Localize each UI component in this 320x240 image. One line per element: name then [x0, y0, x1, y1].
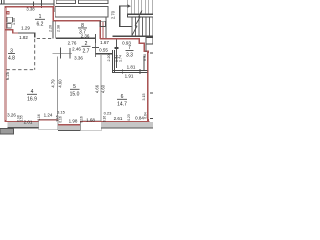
shaft box top right	[146, 37, 153, 44]
svg-text:6.2: 6.2	[37, 22, 44, 28]
red fixture mark	[7, 12, 9, 14]
right edge tick	[150, 117, 153, 120]
fixture sink	[7, 17, 13, 22]
svg-text:3.15: 3.15	[57, 110, 66, 115]
svg-text:3.36: 3.36	[74, 56, 83, 61]
bottom wall red left segment	[5, 121, 39, 122]
gray band left	[8, 122, 39, 127]
svg-text:3.26: 3.26	[7, 113, 16, 118]
svg-text:2.61: 2.61	[114, 116, 123, 121]
svg-text:1.82: 1.82	[19, 35, 28, 40]
dim line vertical mid	[94, 43, 97, 57]
wall bottom of room 8	[56, 38, 95, 39]
stair landing band	[127, 14, 153, 15]
partition wall room5/6	[101, 54, 102, 121]
room 4 underline	[27, 93, 37, 96]
window bay mid	[81, 121, 102, 131]
svg-text:2.20: 2.20	[107, 55, 111, 62]
svg-text:2.20: 2.20	[49, 25, 53, 32]
svg-text:0.16: 0.16	[37, 114, 41, 120]
dim cross mid	[53, 52, 73, 55]
svg-text:16.9: 16.9	[27, 96, 37, 102]
corridor bottom wall	[96, 53, 114, 54]
room 1 underline	[35, 18, 45, 21]
room 7 underline	[126, 49, 134, 52]
shaft right edge	[106, 17, 107, 40]
balcony big rect	[55, 6, 108, 17]
svg-text:1.68: 1.68	[86, 118, 95, 123]
shaft column	[100, 21, 106, 26]
right edge tick	[150, 91, 153, 94]
dim tick	[34, 32, 35, 37]
svg-text:2.7: 2.7	[83, 48, 90, 54]
shaft left line	[145, 37, 148, 52]
svg-text:4.66: 4.66	[95, 84, 100, 93]
fixture toilet	[7, 24, 11, 28]
tick	[2, 0, 5, 4]
svg-text:2.70: 2.70	[110, 10, 115, 19]
svg-text:1.67: 1.67	[100, 40, 109, 45]
svg-text:0.90: 0.90	[143, 54, 147, 61]
svg-text:4.60: 4.60	[58, 79, 63, 88]
svg-text:3.3: 3.3	[126, 52, 133, 58]
room 2 underline	[82, 45, 91, 48]
dim tick cross	[92, 46, 99, 49]
stair break line	[132, 10, 142, 35]
right edge tick	[150, 51, 153, 54]
window bay left	[39, 119, 58, 129]
room7 left wall double	[111, 50, 114, 73]
svg-text:4.79: 4.79	[51, 79, 56, 88]
rotated dims	[5, 10, 115, 93]
wall red step h1	[139, 43, 146, 44]
wall red vertical right of room 1	[52, 6, 54, 21]
wall red notch h2	[12, 32, 18, 33]
bottom wall red right segment	[101, 121, 149, 122]
stair arrow line	[119, 5, 127, 8]
svg-text:1.81: 1.81	[127, 65, 136, 70]
svg-text:15.0: 15.0	[70, 91, 80, 97]
wall red notch h1	[5, 29, 14, 30]
partition wall room4/5	[57, 57, 58, 120]
tick	[32, 2, 35, 7]
balcony bar A	[56, 0, 75, 4]
svg-text:1.55: 1.55	[12, 18, 16, 25]
svg-text:2.36: 2.36	[81, 33, 90, 38]
top dimension line	[0, 4, 54, 5]
svg-text:0.16: 0.16	[80, 116, 84, 122]
dim tick	[121, 69, 124, 74]
svg-text:1.74: 1.74	[119, 55, 123, 62]
svg-text:14.7: 14.7	[117, 101, 127, 107]
stair shaft left wall	[119, 6, 120, 28]
room 8 underline	[78, 27, 87, 30]
wall red step v1	[139, 38, 141, 44]
svg-text:3.15: 3.15	[142, 94, 146, 101]
svg-text:2.01: 2.01	[24, 119, 33, 124]
dim tick	[139, 69, 142, 74]
dim tick blob	[115, 47, 119, 49]
room 6 underline	[117, 98, 127, 101]
svg-text:4.8: 4.8	[8, 56, 15, 62]
room 5 underline	[70, 88, 80, 91]
svg-text:0.16: 0.16	[59, 116, 63, 122]
dim line room3 top	[18, 33, 36, 34]
svg-text:1.91: 1.91	[125, 74, 134, 79]
svg-text:1.55: 1.55	[20, 115, 24, 121]
wall red notch v	[12, 29, 13, 33]
svg-text:2.38: 2.38	[56, 25, 60, 32]
svg-text:0.55: 0.55	[99, 47, 108, 52]
svg-text:0.23: 0.23	[104, 111, 113, 116]
dashed boundary room1 bottom	[37, 37, 53, 39]
tick	[41, 0, 42, 8]
wall red vertical left of stairs	[100, 20, 102, 39]
svg-text:2.76: 2.76	[68, 41, 77, 46]
wall room1/room8 double	[52, 21, 55, 39]
svg-text:1.29: 1.29	[21, 26, 30, 31]
svg-text:0.23: 0.23	[127, 114, 131, 120]
bottom wall red mid segment	[58, 124, 81, 125]
gray band right	[101, 122, 153, 127]
dark wall stub right	[144, 56, 145, 71]
svg-text:6.25: 6.25	[5, 71, 10, 80]
wall red top of room 8	[53, 20, 101, 22]
svg-text:1.98: 1.98	[69, 119, 78, 124]
wall red top of room 7	[100, 38, 140, 40]
balcony bar B	[78, 0, 108, 4]
wall red step v2	[144, 43, 146, 52]
door threshold tick	[115, 56, 119, 59]
wall top red	[5, 6, 55, 7]
svg-text:1.24: 1.24	[44, 113, 53, 118]
svg-text:4.60: 4.60	[101, 84, 106, 93]
dashed boundary room4 top	[7, 69, 35, 71]
wall right red	[147, 51, 149, 123]
svg-text:0.16: 0.16	[103, 116, 107, 122]
tick	[0, 0, 3, 4]
dim line vertical room7	[115, 40, 118, 69]
dim tick	[94, 34, 97, 43]
dashed boundary vertical	[34, 39, 36, 70]
stair treads lower flight	[131, 18, 134, 36]
bottom double wall of room7 corridor	[113, 70, 148, 71]
svg-text:3.38: 3.38	[26, 7, 35, 12]
room 3 underline	[8, 52, 15, 55]
stairwell bottom wall	[113, 36, 154, 37]
gray band mid	[58, 125, 81, 130]
wall red step h2	[144, 51, 149, 52]
texts	[26, 7, 35, 12]
stair treads upper flight	[126, 0, 129, 14]
wall left red	[5, 6, 7, 122]
stair arrow head	[127, 4, 131, 8]
bottom-left wall blob	[0, 128, 14, 134]
svg-text:2.46: 2.46	[72, 46, 81, 51]
svg-text:0.84: 0.84	[144, 112, 148, 118]
